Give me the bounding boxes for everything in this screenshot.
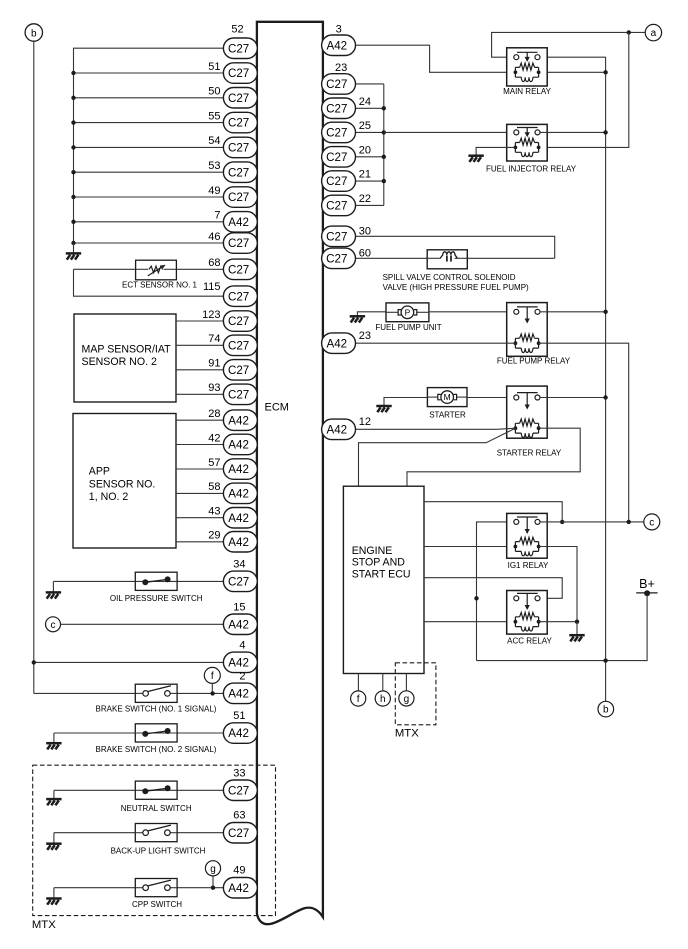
wire main relay coil to bus B xyxy=(539,71,606,73)
pin number 68 xyxy=(208,257,220,269)
connector C27 pin 22 (right) xyxy=(322,195,356,216)
svg-text:60: 60 xyxy=(359,248,371,260)
connector C27 pin 74 (left) xyxy=(223,335,257,356)
wire pin 68 (ECT) xyxy=(74,268,224,270)
svg-text:51: 51 xyxy=(233,710,245,722)
junction on ground bus at pin 55 xyxy=(71,120,75,124)
svg-text:STARTER RELAY: STARTER RELAY xyxy=(497,448,562,457)
svg-text:ENGINE: ENGINE xyxy=(352,545,393,557)
pin number 52 xyxy=(231,23,243,35)
wire ACC coil to ground xyxy=(539,621,577,623)
pin number 93 xyxy=(208,382,220,394)
pin number 42 xyxy=(208,432,220,444)
pin number 4 xyxy=(239,639,245,651)
pin number 28 xyxy=(208,408,220,420)
svg-text:C27: C27 xyxy=(228,263,249,276)
svg-text:A42: A42 xyxy=(228,727,249,740)
wire pin 29 (APP) xyxy=(176,541,223,543)
svg-text:NEUTRAL SWITCH: NEUTRAL SWITCH xyxy=(121,804,192,813)
connector C27 pin 46 (left) xyxy=(223,233,257,254)
wire b bus vertical xyxy=(33,41,35,693)
wire pin 123 (MAP) xyxy=(176,320,223,322)
connector C27 pin 55 (left) xyxy=(223,112,257,133)
svg-text:50: 50 xyxy=(208,86,220,98)
pin number 7 xyxy=(214,210,220,222)
connector C27 pin 33 (left lower) xyxy=(223,780,257,801)
connector A42 pin 42 (left) xyxy=(223,434,257,455)
junction on ground bus at pin 54 xyxy=(71,145,75,149)
svg-text:g: g xyxy=(210,864,216,875)
label BRAKE SWITCH (NO. 2 SIGNAL) xyxy=(96,745,217,754)
wire pin 115 (ECT return) xyxy=(74,269,224,296)
label STARTER RELAY xyxy=(497,448,562,457)
svg-text:C27: C27 xyxy=(228,290,249,303)
svg-text:OIL PRESSURE SWITCH: OIL PRESSURE SWITCH xyxy=(110,594,203,603)
wire pin 15 from node c xyxy=(61,623,224,625)
ground G ACC relay xyxy=(569,635,584,641)
svg-text:91: 91 xyxy=(208,358,220,370)
connector A42 pin 15 (left lower) xyxy=(223,614,257,635)
label IG1 RELAY xyxy=(508,561,549,570)
pin number 21 xyxy=(359,169,371,181)
pin number 3 xyxy=(336,24,342,36)
svg-text:21: 21 xyxy=(359,169,371,181)
wire neutral ground stub xyxy=(53,790,55,798)
pin number 63 xyxy=(233,810,245,822)
connector C27 pin 21 (right) xyxy=(322,171,356,192)
svg-text:b: b xyxy=(31,28,37,39)
junction bus B / main relay coil xyxy=(603,70,607,74)
svg-text:b: b xyxy=(603,705,609,716)
wire pin 20 (right) xyxy=(356,156,384,158)
svg-text:23: 23 xyxy=(335,62,347,74)
label FUEL INJECTOR RELAY xyxy=(486,164,577,173)
wire CPP ground stub xyxy=(53,888,55,898)
terminal B+ xyxy=(636,577,657,597)
pin number 57 xyxy=(208,457,220,469)
svg-text:f: f xyxy=(357,694,360,705)
junction on ground bus at pin 51 xyxy=(71,71,75,75)
label ACC RELAY xyxy=(507,637,552,646)
wire ECU to ACC relay coil xyxy=(424,621,515,623)
svg-text:C27: C27 xyxy=(228,117,249,130)
ground G brake switch no.2 xyxy=(46,743,61,749)
svg-text:33: 33 xyxy=(233,767,245,779)
wire pin 51 xyxy=(74,72,224,74)
wire starter ground stub xyxy=(384,398,427,406)
wire B+ to bus B and IG1/ACC feed xyxy=(477,595,648,661)
svg-text:BRAKE SWITCH (NO. 2 SIGNAL): BRAKE SWITCH (NO. 2 SIGNAL) xyxy=(96,745,217,754)
wire ACC ground stub xyxy=(576,622,578,635)
svg-text:C27: C27 xyxy=(326,78,347,91)
wire node a to main relay contact xyxy=(492,32,646,57)
wire pin 58 (APP) xyxy=(176,492,223,494)
pin number 74 xyxy=(208,333,220,345)
wire ECU stub to node g xyxy=(405,674,407,691)
svg-text:42: 42 xyxy=(208,432,220,444)
svg-text:C27: C27 xyxy=(326,200,347,213)
wire pin 55 xyxy=(74,122,224,124)
relay IG1 RELAY (U5) xyxy=(507,513,548,558)
wire pin 91 (MAP) xyxy=(176,369,223,371)
junction bus B / starter relay contact xyxy=(603,395,607,399)
wire fuel pump relay contact to bus B xyxy=(540,311,606,313)
pin number 50 xyxy=(208,86,220,98)
svg-text:C27: C27 xyxy=(228,388,249,401)
connector A42 pin 51 (left lower) xyxy=(223,723,257,744)
svg-text:C27: C27 xyxy=(326,127,347,140)
node f (bottom) xyxy=(351,691,366,706)
junction bracket / pin 25 xyxy=(382,130,386,134)
pin number 20 xyxy=(359,144,371,156)
wire pin 63 (back-up light switch) xyxy=(54,832,224,834)
junction B+ riser / ACC contact xyxy=(474,596,478,600)
svg-text:ACC RELAY: ACC RELAY xyxy=(507,637,552,646)
junction bus B / B+ wire xyxy=(603,658,607,662)
connector A42 pin 57 (left) xyxy=(223,459,257,480)
pin number 22 xyxy=(359,193,371,205)
junction bracket / pin 21 xyxy=(382,179,386,183)
connector C27 pin 115 (left) xyxy=(223,286,257,307)
wire IG1 contact to node c xyxy=(540,521,644,523)
connector A42 pin 3 (right) xyxy=(322,35,356,56)
thermistor ECT SENSOR NO. 1 xyxy=(136,260,177,280)
connector A42 pin 58 (left) xyxy=(223,483,257,504)
node h (bottom) xyxy=(375,691,390,706)
pin number 46 xyxy=(208,231,220,243)
svg-text:c: c xyxy=(51,620,56,631)
svg-text:4: 4 xyxy=(239,639,245,651)
svg-text:25: 25 xyxy=(359,120,371,132)
connector C27 pin 52 (left) xyxy=(223,38,257,59)
svg-text:55: 55 xyxy=(208,110,220,122)
svg-text:A42: A42 xyxy=(228,439,249,452)
solenoid SPILL VALVE CONTROL SOLENOID VALVE xyxy=(427,250,467,269)
node b (bottom right) xyxy=(598,701,614,717)
junction ACC coil / IG1 coil ground riser xyxy=(575,620,579,624)
svg-text:ECT SENSOR NO. 1: ECT SENSOR NO. 1 xyxy=(122,280,198,289)
pin number 25 xyxy=(359,120,371,132)
svg-text:12: 12 xyxy=(359,416,371,428)
wire starter to starter relay contact xyxy=(467,397,514,399)
connector C27 pin 123 (left) xyxy=(223,311,257,332)
wire pin 54 xyxy=(74,146,224,148)
pin number 53 xyxy=(208,160,220,172)
svg-text:3: 3 xyxy=(336,24,342,36)
dashed box MTX (left) xyxy=(32,765,276,931)
svg-text:C27: C27 xyxy=(326,102,347,115)
connector C27 pin 24 (right) xyxy=(322,98,356,119)
node g (bottom) xyxy=(399,691,414,706)
connector C27 pin 68 (left) xyxy=(223,259,257,280)
wire pin 46 xyxy=(74,242,224,244)
svg-text:C27: C27 xyxy=(228,315,249,328)
pin number 54 xyxy=(208,135,220,147)
switch OIL PRESSURE SWITCH (closed) xyxy=(135,572,177,590)
svg-text:A42: A42 xyxy=(228,882,249,895)
svg-text:MTX: MTX xyxy=(32,919,56,931)
svg-text:a: a xyxy=(651,28,657,39)
pin number 23 xyxy=(359,330,371,342)
svg-text:A42: A42 xyxy=(228,512,249,525)
svg-text:BRAKE SWITCH (NO. 1 SIGNAL): BRAKE SWITCH (NO. 1 SIGNAL) xyxy=(96,705,217,714)
svg-text:43: 43 xyxy=(208,506,220,518)
wire pin 49 (CPP switch) xyxy=(54,887,224,889)
label FUEL PUMP RELAY xyxy=(497,357,571,366)
pin number 123 xyxy=(202,309,220,321)
switch BACK-UP LIGHT SWITCH (open) xyxy=(135,824,177,842)
wire IG1 coil to ground riser xyxy=(539,547,577,622)
wire pin 23 (right) xyxy=(356,83,384,85)
svg-text:15: 15 xyxy=(233,601,245,613)
svg-text:SPILL VALVE CONTROL SOLENOID: SPILL VALVE CONTROL SOLENOID xyxy=(383,273,516,282)
connector A42 pin 2 (left lower) xyxy=(223,683,257,704)
pin number 33 xyxy=(233,767,245,779)
svg-text:STOP AND: STOP AND xyxy=(352,557,406,569)
wire pin 50 xyxy=(74,97,224,99)
wire IG1 left contact to B+ riser xyxy=(477,522,514,661)
svg-text:22: 22 xyxy=(359,193,371,205)
wire pin 2 (brake switch no.1) xyxy=(34,692,224,694)
ground G CPP switch xyxy=(46,899,61,905)
svg-text:30: 30 xyxy=(359,226,371,238)
connector C27 pin 53 (left) xyxy=(223,162,257,183)
switch BRAKE SWITCH (NO. 2 SIGNAL) (closed) xyxy=(135,724,177,742)
svg-text:A42: A42 xyxy=(228,216,249,229)
ECM main box xyxy=(257,22,323,924)
pin number 30 xyxy=(359,226,371,238)
junction on ground bus at pin 53 xyxy=(71,170,75,174)
wire fuel injector relay coil to ground xyxy=(476,147,515,155)
wire fuel injector relay contact to bus B xyxy=(540,131,606,133)
svg-text:A42: A42 xyxy=(228,688,249,701)
node a (top right) xyxy=(645,24,661,40)
svg-text:1, NO. 2: 1, NO. 2 xyxy=(89,491,129,503)
svg-text:FUEL PUMP UNIT: FUEL PUMP UNIT xyxy=(375,323,441,332)
svg-text:2: 2 xyxy=(239,670,245,682)
wire pin 42 (APP) xyxy=(176,444,223,446)
wire ground stub xyxy=(73,243,75,253)
wire pin 57 (APP) xyxy=(176,468,223,470)
svg-text:93: 93 xyxy=(208,382,220,394)
pin number 24 xyxy=(359,96,371,108)
svg-text:49: 49 xyxy=(233,865,245,877)
wire pin 28 (APP) xyxy=(176,419,223,421)
svg-text:C27: C27 xyxy=(228,191,249,204)
wire pin 24 (right) xyxy=(356,107,384,109)
svg-text:C27: C27 xyxy=(326,175,347,188)
connector A42 pin 7 (left) xyxy=(223,212,257,233)
svg-text:68: 68 xyxy=(208,257,220,269)
junction bracket / pin 20 xyxy=(382,155,386,159)
junction on ground bus at pin 50 xyxy=(71,96,75,100)
wire starter relay contact to bus B xyxy=(540,397,606,399)
pin number 29 xyxy=(208,530,220,542)
node b (top left) xyxy=(25,24,42,41)
svg-text:h: h xyxy=(380,694,386,705)
wire brake2 ground stub xyxy=(53,733,55,743)
switch CPP SWITCH (open) xyxy=(135,879,177,897)
connector A42 pin 43 (left) xyxy=(223,508,257,529)
svg-text:FUEL PUMP RELAY: FUEL PUMP RELAY xyxy=(497,357,571,366)
pin number 12 xyxy=(359,416,371,428)
svg-text:115: 115 xyxy=(203,281,221,293)
label OIL PRESSURE SWITCH xyxy=(110,594,203,603)
wire fuel pump unit ground stub xyxy=(357,312,386,316)
ground G1 (sensor ground) xyxy=(66,253,81,259)
wire pin 3 to main relay coil xyxy=(356,45,516,72)
wire pin 60 (spill valve) xyxy=(356,257,428,259)
ground G starter xyxy=(376,406,391,412)
svg-text:B+: B+ xyxy=(639,577,655,591)
ground G fuel pump unit xyxy=(350,316,365,322)
connector C27 pin 23 (right) xyxy=(322,74,356,95)
svg-text:C27: C27 xyxy=(228,784,249,797)
svg-text:20: 20 xyxy=(359,144,371,156)
pin number 51 xyxy=(233,710,245,722)
junction on ground bus at pin 49 xyxy=(71,195,75,199)
connector C27 pin 51 (left) xyxy=(223,63,257,84)
wire pin 4 xyxy=(34,661,224,663)
pin number 60 xyxy=(359,248,371,260)
svg-text:MTX: MTX xyxy=(395,728,419,740)
wire node g stub xyxy=(212,876,214,888)
connector A42 pin 49 (left lower) xyxy=(223,878,257,899)
svg-text:49: 49 xyxy=(208,185,220,197)
label MAIN RELAY xyxy=(503,87,552,96)
node c (left) xyxy=(46,617,61,632)
junction b bus / pin 4 xyxy=(32,660,36,664)
label FUEL PUMP UNIT xyxy=(375,323,441,332)
svg-text:C27: C27 xyxy=(228,142,249,155)
junction a-wire / bus A xyxy=(627,30,631,34)
wire pin 53 xyxy=(74,171,224,173)
wire back-up ground stub xyxy=(53,833,55,844)
connector A42 pin 29 (left) xyxy=(223,532,257,553)
box MAP SENSOR/IAT SENSOR NO. 2 xyxy=(74,314,176,402)
wire pin 93 (MAP) xyxy=(176,393,223,395)
connector C27 pin 93 (left) xyxy=(223,384,257,405)
ground G neutral switch xyxy=(46,799,61,805)
junction bracket / pin 24 xyxy=(382,106,386,110)
svg-text:c: c xyxy=(649,518,654,529)
wire pin 22 (right) xyxy=(356,204,384,206)
pin number 34 xyxy=(233,558,245,570)
svg-text:7: 7 xyxy=(214,210,220,222)
wire fuel pump unit to fuel pump relay contact xyxy=(429,311,514,313)
wire ECU stub to node h xyxy=(382,674,384,691)
pin number 115 xyxy=(203,281,221,293)
svg-text:C27: C27 xyxy=(228,42,249,55)
svg-text:A42: A42 xyxy=(228,414,249,427)
wire pin 12 A42 to starter relay coil xyxy=(356,428,516,429)
pin number 51 xyxy=(208,61,220,73)
junction pin49 wire / node g xyxy=(211,886,215,890)
junction on ground bus at pin 7 xyxy=(71,220,75,224)
svg-text:53: 53 xyxy=(208,160,220,172)
wire pin 23 A42 to fuel pump relay coil xyxy=(356,342,516,344)
svg-text:C27: C27 xyxy=(228,827,249,840)
svg-text:BACK-UP LIGHT SWITCH: BACK-UP LIGHT SWITCH xyxy=(111,846,206,855)
relay ACC RELAY (U6) xyxy=(507,591,548,635)
wire pin 21 (right) xyxy=(356,180,384,182)
label BACK-UP LIGHT SWITCH xyxy=(111,846,206,855)
svg-text:52: 52 xyxy=(231,23,243,35)
label ECT SENSOR NO. 1 xyxy=(122,280,198,289)
svg-text:C27: C27 xyxy=(228,364,249,377)
svg-text:M: M xyxy=(444,392,451,402)
connector C27 pin 54 (left) xyxy=(223,137,257,158)
wire ECU to starter relay coil xyxy=(359,428,516,486)
junction pin2 wire / node f xyxy=(210,691,214,695)
svg-text:123: 123 xyxy=(202,309,220,321)
label SPILL VALVE CONTROL SOLENOID VALVE xyxy=(383,273,529,292)
svg-text:63: 63 xyxy=(233,810,245,822)
wire ground-bus pin 52 xyxy=(74,48,224,243)
svg-text:f: f xyxy=(211,671,214,682)
label BRAKE SWITCH (NO. 1 SIGNAL) xyxy=(96,705,217,714)
node c (right) xyxy=(644,514,660,530)
dashed box MTX (right) xyxy=(395,663,436,740)
motor STARTER xyxy=(427,388,467,407)
junction IG1 contact wire / ECU riser xyxy=(560,520,564,524)
pin number 23 xyxy=(335,62,347,74)
connector A42 pin 23 (right) xyxy=(322,333,356,354)
svg-text:A42: A42 xyxy=(228,657,249,670)
svg-text:54: 54 xyxy=(208,135,220,147)
wire bus A to fuel injector relay coil xyxy=(539,32,629,147)
wire bus B (B+ feed vertical) xyxy=(540,57,606,701)
ground G back-up light switch xyxy=(46,844,61,850)
pin number 43 xyxy=(208,506,220,518)
box APP SENSOR NO. 1, NO. 2 xyxy=(73,414,176,549)
connector C27 pin 25 (right) xyxy=(322,122,356,143)
junction ground bus / pin 46 xyxy=(71,241,75,245)
svg-text:C27: C27 xyxy=(228,67,249,80)
connector C27 pin 20 (right) xyxy=(322,147,356,168)
svg-text:C27: C27 xyxy=(228,237,249,250)
wire pin 74 (MAP) xyxy=(176,344,223,346)
switch BRAKE SWITCH (NO. 1 SIGNAL) (open) xyxy=(135,684,177,702)
svg-text:58: 58 xyxy=(208,481,220,493)
label NEUTRAL SWITCH xyxy=(121,804,192,813)
wire pin 33 (neutral switch) xyxy=(54,789,224,791)
svg-text:C27: C27 xyxy=(228,92,249,105)
junction bus B / fuel injector contact xyxy=(603,130,607,134)
connector C27 pin 60 (right) xyxy=(322,248,356,269)
wire starter relay coil return to ECU xyxy=(407,428,580,486)
svg-text:C27: C27 xyxy=(228,166,249,179)
relay FUEL PUMP RELAY (U3) xyxy=(507,303,548,357)
svg-text:57: 57 xyxy=(208,457,220,469)
relay FUEL INJECTOR RELAY (U2) xyxy=(507,124,548,161)
svg-text:APP: APP xyxy=(89,466,110,478)
connector A42 pin 28 (left) xyxy=(223,410,257,431)
label CPP SWITCH xyxy=(132,900,182,909)
wire pin 43 (APP) xyxy=(176,517,223,519)
svg-text:C27: C27 xyxy=(326,151,347,164)
svg-text:MAIN RELAY: MAIN RELAY xyxy=(503,87,552,96)
svg-text:IG1 RELAY: IG1 RELAY xyxy=(508,561,549,570)
svg-text:A42: A42 xyxy=(326,423,347,436)
svg-text:C27: C27 xyxy=(326,230,347,243)
svg-text:24: 24 xyxy=(359,96,371,108)
svg-text:START ECU: START ECU xyxy=(352,568,411,580)
svg-text:74: 74 xyxy=(208,333,220,345)
svg-text:A42: A42 xyxy=(228,618,249,631)
svg-text:FUEL INJECTOR RELAY: FUEL INJECTOR RELAY xyxy=(486,164,577,173)
wire pin 49 xyxy=(74,196,224,198)
